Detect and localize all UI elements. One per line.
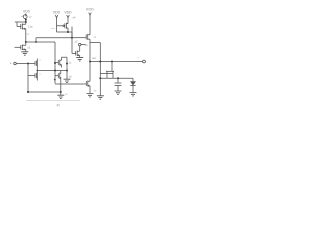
ground G3 bbox=[57, 95, 64, 98]
junction dot C4 bbox=[66, 63, 68, 65]
wire W1 mirror to tail bbox=[26, 42, 55, 84]
vertical net x67 bbox=[66, 57, 68, 79]
junction dot B2 bbox=[71, 37, 73, 39]
ground G7 bbox=[130, 93, 137, 96]
svg-text:x1: x1 bbox=[94, 36, 97, 39]
svg-text:. .. . ... .. . . . ..: . .. . ... .. . . . .. bbox=[27, 100, 41, 102]
transistor M7a (left pair upper) bbox=[35, 59, 37, 81]
bias wire bottom bbox=[28, 91, 61, 93]
svg-text:x4: x4 bbox=[73, 16, 76, 20]
gate bus lower bbox=[55, 83, 86, 85]
transistor M6 (output PMOS) bbox=[72, 34, 90, 62]
svg-text:o: o bbox=[138, 57, 140, 60]
junction dot IN1 bbox=[27, 63, 29, 65]
junction dot O1 bbox=[89, 61, 91, 63]
ground G2 bbox=[76, 58, 83, 61]
junction dot F1 bbox=[99, 77, 101, 79]
junction dot E0 bbox=[54, 79, 56, 81]
junction dot A2 bbox=[25, 41, 27, 43]
transistor M9 (diff pair lower right) bbox=[55, 71, 61, 93]
power VDD pin P3 bbox=[64, 11, 72, 24]
wire to ground bbox=[60, 92, 62, 95]
svg-text:x1: x1 bbox=[39, 74, 42, 76]
junction dot H1 bbox=[117, 77, 119, 79]
svg-text:1e: 1e bbox=[94, 90, 97, 93]
ground G5 bbox=[97, 96, 104, 99]
output wire bbox=[90, 61, 143, 63]
wire W2 gate bus upper bbox=[36, 38, 72, 42]
junction dot L1 bbox=[37, 70, 39, 72]
junction dot O2 bbox=[99, 61, 101, 63]
node circle N1 with lead bbox=[79, 43, 86, 45]
svg-text:11a: 11a bbox=[28, 25, 33, 29]
power VDD pin P1 bbox=[23, 9, 31, 16]
ground G8 bbox=[64, 79, 71, 82]
transistor M10 (output NMOS) bbox=[86, 62, 90, 94]
svg-text:+: + bbox=[10, 62, 12, 66]
source arrows decoration bbox=[24, 28, 90, 87]
svg-text:x7: x7 bbox=[29, 15, 32, 19]
wire common node bbox=[37, 70, 67, 72]
svg-text:x1: x1 bbox=[39, 60, 42, 62]
svg-text:(b): (b) bbox=[57, 103, 60, 107]
svg-text:1c: 1c bbox=[69, 61, 72, 65]
svg-text:VDD: VDD bbox=[86, 8, 94, 12]
junction dot A3 bbox=[35, 41, 37, 43]
svg-text:VDD: VDD bbox=[53, 11, 61, 15]
junction dot D1 bbox=[27, 91, 29, 93]
svg-text:1b: 1b bbox=[85, 43, 89, 47]
bias column x99.5 bbox=[99, 62, 101, 96]
diode D1 bbox=[130, 81, 136, 92]
junction dot C1 bbox=[54, 70, 56, 72]
transistor M5 (middle NMOS under node) bbox=[76, 46, 80, 58]
svg-text:out: out bbox=[92, 56, 96, 60]
junction dot C3 bbox=[54, 62, 56, 64]
wire spur to bias column bbox=[90, 43, 100, 62]
node gate-mirror wire bbox=[15, 22, 26, 27]
power VDD pin P4 bbox=[86, 8, 94, 35]
svg-text:x1: x1 bbox=[27, 33, 30, 36]
wire input to gates bbox=[28, 63, 35, 65]
svg-text:1e: 1e bbox=[65, 93, 68, 96]
caption dots bbox=[26, 99, 80, 101]
junction dot A1 bbox=[25, 21, 27, 23]
svg-text:1d: 1d bbox=[69, 75, 72, 79]
wire lower right net bbox=[100, 78, 133, 81]
svg-text:VDD: VDD bbox=[23, 9, 31, 13]
transistor M8 (diff pair upper right) bbox=[55, 57, 67, 67]
transistor M7b (left pair lower) bbox=[35, 73, 37, 79]
faint label mark bbox=[51, 27, 56, 29]
power VDD pin P2 bbox=[53, 11, 61, 33]
transistor M11 (vertical, right) bbox=[100, 62, 114, 79]
ground G6 bbox=[115, 91, 122, 94]
ground G1 bbox=[21, 52, 28, 55]
junction dot D2 bbox=[60, 91, 62, 93]
junction dot C2 bbox=[66, 70, 68, 72]
output port bbox=[143, 60, 146, 63]
transistor M2 (NMOS diode, 11a) bbox=[21, 22, 26, 42]
transistor M3 (left lower NMOS) bbox=[15, 42, 26, 52]
junction dot A0 bbox=[25, 19, 27, 21]
svg-text:x2: x2 bbox=[75, 40, 78, 44]
svg-text:VDD: VDD bbox=[64, 11, 72, 15]
input port bbox=[10, 62, 28, 66]
capacitor C1 bbox=[115, 78, 122, 91]
wire drain bus of M4 bbox=[57, 32, 73, 38]
junction dot B1 bbox=[67, 31, 69, 33]
transistor M4 (top middle PMOS, x4) bbox=[57, 23, 69, 32]
junction dot O3 bbox=[111, 61, 113, 63]
current source I1 (x7) bbox=[21, 14, 27, 23]
svg-text:x1: x1 bbox=[28, 46, 31, 50]
wire bias drop bbox=[72, 27, 76, 54]
ground G4 bbox=[87, 94, 94, 97]
